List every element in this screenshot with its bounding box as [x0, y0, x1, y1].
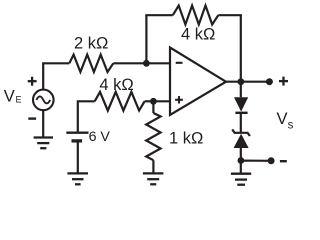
output plus terminal sign [279, 77, 288, 86]
resistor R3 4 kOhm input zigzag [95, 92, 145, 111]
ground under battery [67, 173, 88, 184]
label: VE [4, 87, 22, 105]
wire: zener anode down to lower node [240, 148, 242, 161]
wire: output node down to diode D1 [240, 82, 242, 98]
op-amp U1 triangle [170, 48, 226, 116]
ground under zener [231, 174, 251, 185]
ground under 1k resistor [143, 173, 164, 184]
wire: inverting-input node to op-amp minus input [146, 62, 170, 64]
label: 4 kOhm feedback [181, 25, 215, 43]
wire: feedback right vertical down to output node [240, 15, 242, 82]
source VE circle [33, 90, 54, 111]
terminal dot: plus output [266, 78, 273, 85]
wire: feedback top left horizontal [145, 14, 173, 16]
wire: feedback top right horizontal [218, 14, 242, 16]
zener diode D2 cathode bar with bent ends [232, 129, 250, 136]
wire: D1 cathode to zener D2 cathode [240, 113, 242, 133]
wire: 2k resistor to inverting-input node [113, 62, 146, 64]
battery V1 6V plates [66, 133, 88, 141]
label: 2 kOhm [74, 34, 108, 52]
svg-text:V: V [277, 110, 288, 128]
wire: 4k resistor to non-inverting node [145, 100, 154, 102]
svg-text:1 kΩ: 1 kΩ [169, 129, 203, 147]
label: VS [277, 110, 294, 132]
zener diode D2 triangle [234, 134, 249, 148]
wire: 1k resistor to ground [152, 160, 154, 173]
wire: feedback left vertical from inverting node up [145, 15, 147, 63]
wire: non-inverting node to op-amp plus input [153, 100, 170, 102]
op-amp plus sign [175, 96, 183, 103]
svg-text:4 kΩ: 4 kΩ [181, 25, 215, 43]
svg-text:s: s [288, 120, 294, 132]
node: non-inverting input junction [150, 98, 157, 105]
output minus terminal sign [280, 160, 287, 162]
svg-text:6 V: 6 V [89, 129, 111, 145]
svg-text:2 kΩ: 2 kΩ [74, 34, 108, 52]
wire: battery negative lead to ground [77, 141, 79, 174]
resistor R1 2 kOhm zigzag [69, 55, 113, 72]
svg-text:E: E [16, 94, 22, 104]
wire: VE top lead up and right to 2k resistor [43, 63, 69, 90]
wire: lower node down to ground [240, 161, 242, 174]
ground under VE [34, 138, 53, 149]
wire: op-amp output to plus terminal [226, 81, 269, 83]
sine symbol inside VE [36, 96, 50, 103]
svg-text:V: V [4, 87, 15, 105]
wire: plus rail corner down to battery [78, 101, 95, 132]
node: lower output junction [238, 157, 245, 164]
wire: VE bottom lead to ground [42, 110, 44, 137]
resistor R4 1 kOhm vertical zigzag [146, 113, 160, 160]
label: 6 V [89, 129, 111, 145]
source minus polarity sign [28, 117, 36, 119]
svg-text:4 kΩ: 4 kΩ [99, 76, 133, 94]
node: output junction [238, 78, 245, 85]
terminal dot: minus output [268, 157, 275, 164]
label: 4 kOhm input [99, 76, 133, 94]
wire: lower node to minus terminal [241, 160, 271, 162]
label: 1 kOhm [169, 129, 203, 147]
node: inverting input junction [143, 60, 150, 67]
wire: non-inverting node down to 1k resistor [152, 101, 154, 113]
diode D1 triangle and cathode bar [234, 97, 248, 113]
op-amp minus sign [176, 62, 183, 64]
resistor R2 4 kOhm feedback zigzag [173, 6, 219, 25]
source plus polarity sign [28, 77, 37, 86]
